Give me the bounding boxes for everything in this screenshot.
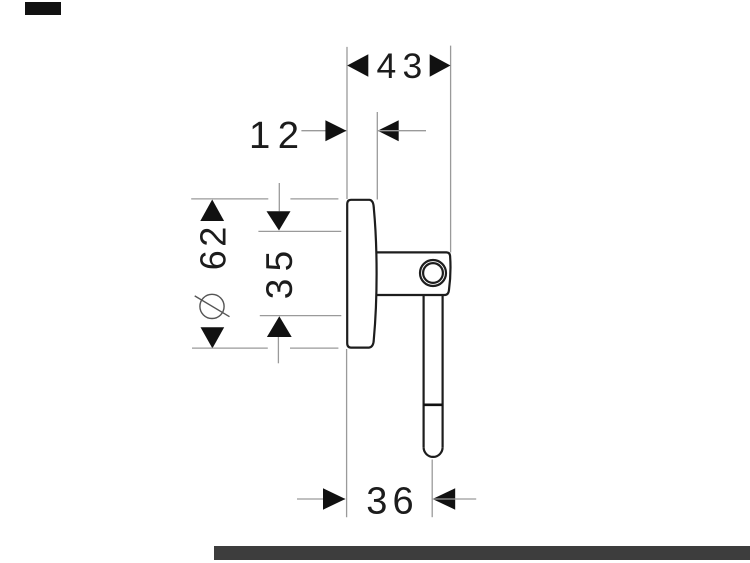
watermark bar bottom xyxy=(214,546,750,560)
svg-text:43: 43 xyxy=(377,46,429,86)
dimension 35 arrow bottom (points up) xyxy=(267,316,292,337)
dimension 62 arrow down xyxy=(201,327,225,348)
dimension 12 line right segment xyxy=(378,130,426,132)
extension line below rod to 36 (x=432.2) xyxy=(431,460,433,518)
leader below 35 bottom arrow xyxy=(277,337,279,363)
extension line top of 35 (y=231.4) xyxy=(258,230,341,232)
dimension 35 arrow top (points down) xyxy=(267,211,291,230)
dimension 12 arrow right xyxy=(378,120,399,141)
wall plate side profile xyxy=(347,200,376,348)
extension line right of 43 (x=450.6) xyxy=(450,46,452,253)
dimension 12 line left segment xyxy=(301,130,346,132)
leader above 35 top arrow xyxy=(278,183,280,211)
dimension 43 arrow right xyxy=(430,54,451,77)
dimension 36 line left segment xyxy=(297,498,345,500)
svg-text:12: 12 xyxy=(249,114,307,157)
watermark block top-left xyxy=(25,2,61,15)
extension line left of 43 (x=347) xyxy=(346,47,348,199)
extension line bottom of 35 (y=315.6) xyxy=(260,315,342,317)
svg-text:35: 35 xyxy=(259,244,300,300)
extension line bottom of 62 (y=348.1) xyxy=(192,347,268,349)
extension line below plate to 36 (x=346.6) xyxy=(346,349,348,517)
svg-text:36: 36 xyxy=(366,481,419,523)
dimension 43 arrow left xyxy=(347,54,368,77)
screw inner circle xyxy=(423,263,443,283)
dimension 36 line right segment xyxy=(433,498,477,500)
screw outer circle xyxy=(420,260,446,286)
arm (holder body) xyxy=(376,252,450,295)
diameter symbol circle xyxy=(200,294,224,318)
rod right edge xyxy=(442,295,444,447)
rod joint line xyxy=(424,403,443,406)
diameter symbol slash xyxy=(195,296,230,317)
svg-text:62: 62 xyxy=(192,223,233,270)
dimension 62 arrow up xyxy=(200,200,224,222)
rod left edge xyxy=(423,295,425,447)
rod bottom cap xyxy=(424,447,443,457)
dimension 36 arrow right xyxy=(433,488,456,509)
dimension 12 arrow left xyxy=(325,120,346,141)
dimension 36 arrow left xyxy=(323,488,345,509)
extension line top of 62 (y=198.9) xyxy=(191,198,268,200)
extension line right of 12 (x=377.3) xyxy=(376,112,378,200)
